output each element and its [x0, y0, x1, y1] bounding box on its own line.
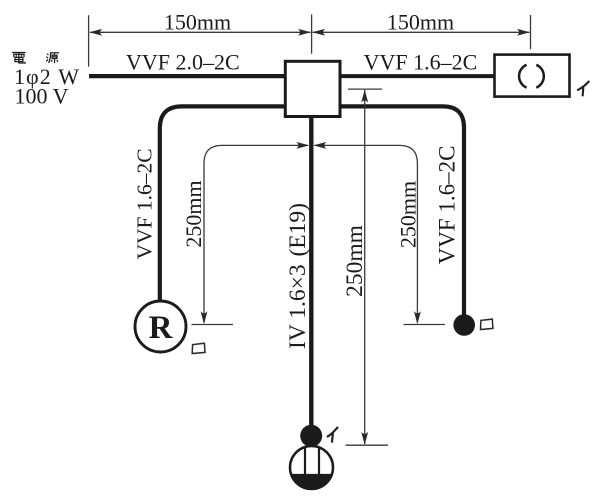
svg-text:100 V: 100 V	[15, 84, 69, 109]
connection dot イ centre	[300, 425, 322, 447]
svg-text:250mm: 250mm	[395, 181, 420, 248]
svg-text:IV 1.6×3 (E19): IV 1.6×3 (E19)	[285, 203, 311, 349]
connection dot ロ right	[453, 314, 475, 336]
kanji 電	[12, 53, 26, 64]
label イ beside angular ceiling rose	[577, 81, 589, 96]
svg-text:VVF 1.6–2C: VVF 1.6–2C	[133, 148, 157, 259]
wire VVF 1.6-2C left drop to lamp receptacle	[160, 106, 288, 303]
svg-text:250mm: 250mm	[342, 225, 368, 297]
svg-text:R: R	[149, 310, 174, 346]
label イ beside centre dot	[327, 427, 338, 443]
( ) symbol inside angular ceiling rose	[536, 65, 544, 88]
svg-text:VVF 1.6–2C: VVF 1.6–2C	[435, 146, 460, 265]
dimension 250mm left	[192, 145, 309, 324]
dimension 250mm right	[315, 145, 446, 324]
conduit IV 1.6x3 (E19) centre drop	[309, 114, 313, 432]
kanji 源	[46, 53, 59, 63]
dimension 150mm left	[89, 15, 311, 66]
svg-text:VVF 1.6–2C: VVF 1.6–2C	[364, 50, 478, 75]
wire VVF 1.6-2C right drop to connection dot	[338, 106, 464, 318]
svg-text:250mm: 250mm	[181, 180, 206, 247]
junction box	[285, 61, 340, 116]
svg-text:VVF 2.0–2C: VVF 2.0–2C	[126, 50, 240, 75]
wire VVF 2.0-2C from source to junction box	[89, 74, 288, 78]
dimension 250mm centre	[346, 89, 389, 445]
svg-text:150mm: 150mm	[387, 10, 454, 35]
label ロ beside right dot	[481, 319, 493, 329]
round ceiling fixture	[290, 446, 333, 489]
svg-text:150mm: 150mm	[164, 10, 231, 35]
angular ceiling rose box	[495, 55, 570, 97]
label ロ below lamp receptacle	[192, 343, 205, 353]
dimension 150mm right	[312, 14, 531, 53]
wire VVF 1.6-2C junction box to angular ceiling rose イ	[338, 74, 496, 78]
lamp receptacle R	[135, 301, 186, 352]
